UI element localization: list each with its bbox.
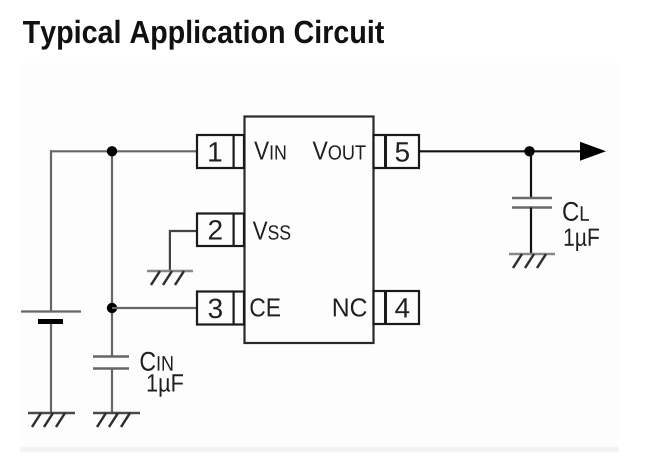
node: junction CE tap — [107, 303, 117, 313]
pin 2 box — [197, 214, 244, 247]
wire: battery - down to ground — [50, 324, 52, 413]
pin 4 number — [395, 298, 409, 317]
pin 1 number — [209, 142, 221, 161]
pin 5 number — [396, 142, 409, 162]
pin label VOUT — [313, 142, 366, 160]
capacitor CIN — [93, 357, 129, 369]
wire: junction to pin 3 — [112, 307, 197, 309]
wire: junction down to CL — [530, 151, 532, 198]
pin 1 box — [197, 135, 244, 168]
pin 5 box — [374, 135, 420, 168]
title — [23, 20, 384, 50]
wire: middle rail vertical (VIN node down to CIN) — [111, 151, 113, 356]
pin 3 number — [209, 298, 222, 318]
pin label VIN — [254, 142, 285, 160]
battery BT1 — [21, 312, 81, 325]
pin 3 box — [197, 292, 244, 325]
figure background — [20, 63, 619, 453]
capacitor CL — [512, 198, 552, 208]
wire: CIN to ground — [111, 369, 113, 414]
pin 4 box — [374, 291, 420, 324]
pin label VSS — [253, 222, 290, 240]
op-amp U1 body (regulator) — [245, 117, 374, 344]
pin 2 number — [209, 220, 222, 240]
value 1µF (CL) — [565, 229, 599, 251]
value 1µF (CIN) — [148, 374, 183, 396]
label CIN — [141, 352, 173, 371]
node: junction VIN rail — [107, 146, 117, 156]
output arrow — [580, 142, 606, 161]
figure bottom border — [20, 447, 619, 452]
ground (CIN) — [93, 413, 140, 427]
wire: pin 2 to ground — [170, 231, 197, 271]
wire: VIN net from left rail to pin 1 — [51, 150, 197, 152]
ground (battery) — [28, 413, 75, 427]
ground (VSS pin 2) — [147, 271, 193, 285]
node: junction VOUT wire — [524, 146, 534, 156]
wire: CL to ground — [530, 208, 532, 255]
label CL — [563, 202, 589, 221]
wire: pin 5 to output node — [419, 150, 582, 152]
ground (CL) — [509, 254, 555, 268]
pin label CE — [250, 298, 280, 316]
wire: left rail down to battery + — [50, 150, 52, 311]
pin label NC — [334, 298, 367, 316]
